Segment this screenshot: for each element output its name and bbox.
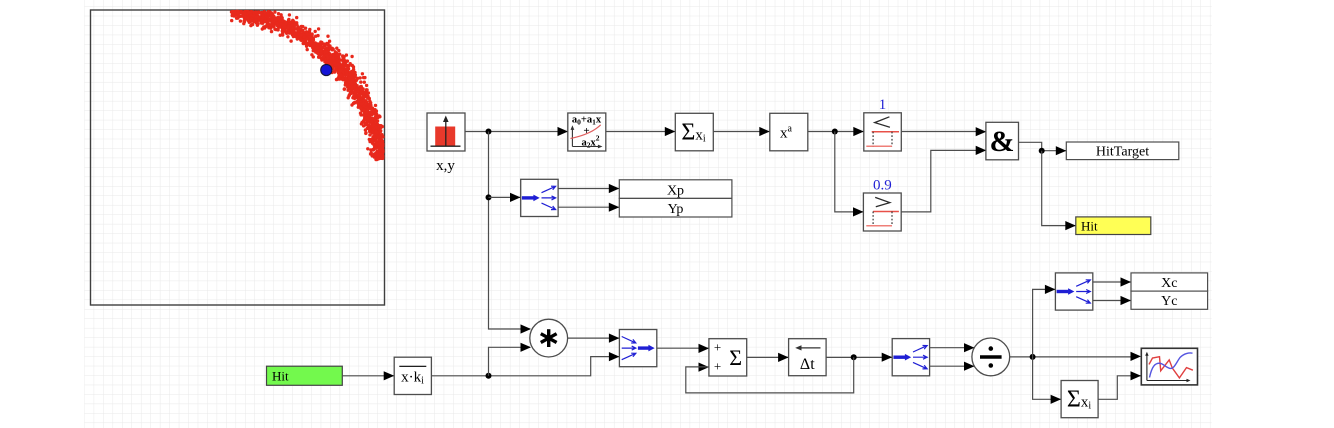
svg-text:Δt: Δt	[800, 356, 815, 373]
svg-text:Yc: Yc	[1161, 294, 1177, 309]
svg-text:x,y: x,y	[436, 158, 455, 174]
svg-text:Σ: Σ	[729, 345, 742, 370]
svg-text:+: +	[714, 359, 721, 374]
svg-text:1: 1	[879, 97, 887, 113]
svg-text:Xc: Xc	[1161, 276, 1177, 291]
svg-text:Yp: Yp	[668, 202, 684, 217]
svg-text:HitTarget: HitTarget	[1096, 145, 1149, 160]
svg-text:Xp: Xp	[667, 183, 684, 198]
svg-text:Hit: Hit	[272, 369, 289, 384]
svg-text:Hit: Hit	[1081, 218, 1098, 233]
svg-text:+: +	[583, 125, 589, 137]
svg-text:+: +	[714, 339, 721, 354]
svg-text:&: &	[990, 125, 1015, 158]
svg-text:x·ki: x·ki	[401, 370, 424, 387]
svg-text:0.9: 0.9	[873, 178, 892, 194]
